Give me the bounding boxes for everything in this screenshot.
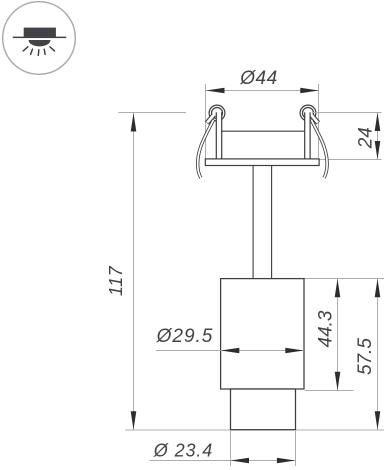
stem left line xyxy=(252,166,254,279)
extension line dia44 right xyxy=(318,84,320,159)
svg-text:Ø29.5: Ø29.5 xyxy=(156,326,214,347)
arrow dia23.4 left xyxy=(231,458,250,464)
dimension line 24 xyxy=(377,113,379,160)
dimension line 44.3 xyxy=(337,279,339,391)
housing wall left xyxy=(216,112,221,159)
pivot circle right outer xyxy=(300,105,316,121)
extension line dia23.4 left xyxy=(230,431,232,466)
lamp body xyxy=(221,279,304,389)
spring wire right xyxy=(311,120,327,178)
arrow 44.3 up xyxy=(335,279,341,298)
icon lamp dome xyxy=(29,40,51,46)
extension line 24 bottom xyxy=(320,159,382,161)
svg-text:44.3: 44.3 xyxy=(316,310,337,347)
arrow 44.3 down xyxy=(335,372,341,391)
spring wire left xyxy=(198,120,214,178)
arrow 57.5 down xyxy=(375,411,381,430)
dimension line 117 xyxy=(133,113,135,430)
extension line dia44 left xyxy=(205,84,207,159)
spring clip hook left xyxy=(207,114,214,123)
pivot circle right inner xyxy=(303,108,314,119)
icon circle badge xyxy=(3,2,76,75)
stem right line xyxy=(271,166,273,279)
pivot circle left inner xyxy=(212,108,223,119)
arrow 117 down xyxy=(131,411,137,430)
svg-text:57.5: 57.5 xyxy=(355,338,376,375)
trim flange xyxy=(205,159,319,166)
extension line bottom shared xyxy=(125,429,384,431)
arrow dia23.4 right xyxy=(277,458,296,464)
arrow dia44 left xyxy=(206,88,225,94)
extension line 44.3 bottom xyxy=(305,390,354,392)
dimension leader dia29.5 xyxy=(156,350,304,352)
arrow dia29.5 left xyxy=(221,348,240,354)
icon fixture box xyxy=(24,28,56,37)
svg-text:Ø 23.4: Ø 23.4 xyxy=(153,441,213,461)
arrowheads xyxy=(131,88,381,464)
arrow 24 down xyxy=(375,141,381,160)
arrow dia44 right xyxy=(300,88,319,94)
dimension line 57.5 xyxy=(377,279,379,430)
icon ceiling line xyxy=(13,37,66,39)
extension line 44.3/57.5 top xyxy=(305,278,385,280)
dimension line dia44 xyxy=(206,90,319,92)
svg-text:Ø44: Ø44 xyxy=(239,68,277,89)
extension line 24 top xyxy=(312,112,382,114)
lamp nose cylinder xyxy=(231,389,296,430)
spring clip hook right xyxy=(311,114,318,123)
arrow 117 up xyxy=(131,113,137,132)
pivot circle left outer xyxy=(209,105,225,121)
arrow 24 up xyxy=(375,113,381,132)
extension line dia23.4 right xyxy=(295,431,297,466)
arrow dia29.5 right xyxy=(285,348,304,354)
housing inner top line xyxy=(222,130,305,132)
housing wall right xyxy=(305,112,310,159)
arrow 57.5 up xyxy=(375,279,381,298)
extension line 117 top xyxy=(118,112,186,114)
dimension leader dia23.4 xyxy=(150,460,296,462)
svg-text:24: 24 xyxy=(356,127,377,149)
svg-text:117: 117 xyxy=(106,265,126,296)
icon light rays xyxy=(23,47,54,56)
